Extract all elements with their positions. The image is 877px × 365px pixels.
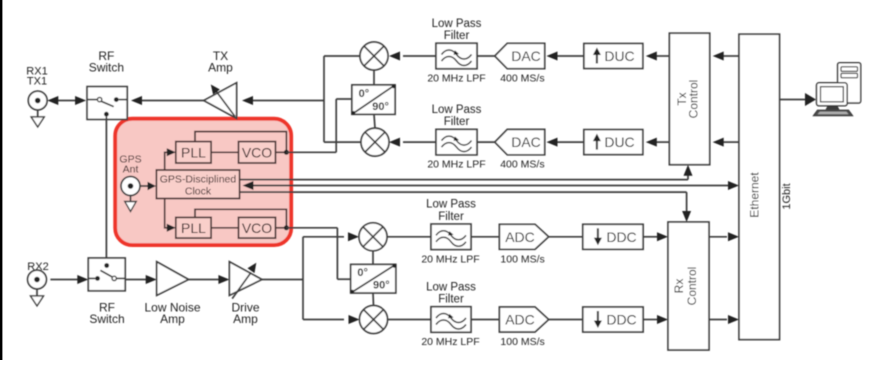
svg-text:Low Pass: Low Pass bbox=[432, 104, 482, 116]
svg-text:Low Pass: Low Pass bbox=[426, 281, 476, 293]
svg-text:Filter: Filter bbox=[438, 294, 464, 306]
svg-text:20 MHz LPF: 20 MHz LPF bbox=[427, 159, 485, 171]
svg-text:Ethernet: Ethernet bbox=[748, 172, 762, 218]
svg-text:1Gbit: 1Gbit bbox=[781, 183, 793, 209]
svg-text:Amp: Amp bbox=[160, 312, 185, 326]
svg-text:400 MS/s: 400 MS/s bbox=[500, 159, 544, 171]
svg-text:Ant: Ant bbox=[123, 164, 139, 176]
svg-text:DDC: DDC bbox=[606, 229, 636, 245]
svg-text:Filter: Filter bbox=[438, 211, 464, 223]
svg-text:20 MHz LPF: 20 MHz LPF bbox=[427, 73, 485, 85]
svg-text:Switch: Switch bbox=[89, 312, 124, 326]
svg-text:0°: 0° bbox=[357, 267, 368, 279]
svg-text:400 MS/s: 400 MS/s bbox=[500, 73, 544, 85]
svg-text:20 MHz LPF: 20 MHz LPF bbox=[421, 336, 479, 348]
svg-text:Low Pass: Low Pass bbox=[432, 18, 482, 30]
svg-text:DAC: DAC bbox=[511, 48, 541, 64]
svg-text:Control: Control bbox=[687, 80, 701, 119]
svg-text:ADC: ADC bbox=[505, 229, 535, 245]
svg-text:90°: 90° bbox=[372, 101, 389, 113]
svg-text:90°: 90° bbox=[373, 280, 390, 292]
svg-text:Amp: Amp bbox=[233, 312, 258, 326]
svg-text:DUC: DUC bbox=[604, 134, 634, 150]
svg-text:Filter: Filter bbox=[444, 116, 470, 128]
svg-text:PLL: PLL bbox=[181, 144, 206, 160]
svg-text:100 MS/s: 100 MS/s bbox=[500, 253, 544, 265]
svg-text:ADC: ADC bbox=[505, 312, 535, 328]
svg-text:VCO: VCO bbox=[242, 220, 272, 236]
svg-text:Switch: Switch bbox=[89, 61, 124, 75]
svg-text:GPS-Disciplined: GPS-Disciplined bbox=[160, 173, 237, 185]
svg-text:20 MHz LPF: 20 MHz LPF bbox=[421, 253, 479, 265]
svg-text:100 MS/s: 100 MS/s bbox=[500, 336, 544, 348]
svg-text:0°: 0° bbox=[359, 88, 370, 100]
svg-text:Rx: Rx bbox=[672, 279, 686, 294]
svg-text:DAC: DAC bbox=[511, 134, 541, 150]
svg-text:Low Pass: Low Pass bbox=[426, 199, 476, 211]
svg-text:PLL: PLL bbox=[181, 220, 206, 236]
svg-text:TX1: TX1 bbox=[27, 76, 47, 88]
svg-text:Amp: Amp bbox=[208, 61, 233, 75]
svg-text:Filter: Filter bbox=[444, 30, 470, 42]
svg-text:DUC: DUC bbox=[604, 48, 634, 64]
svg-text:VCO: VCO bbox=[242, 144, 272, 160]
svg-text:Clock: Clock bbox=[185, 185, 212, 197]
svg-text:Control: Control bbox=[685, 267, 699, 306]
svg-text:DDC: DDC bbox=[606, 312, 636, 328]
